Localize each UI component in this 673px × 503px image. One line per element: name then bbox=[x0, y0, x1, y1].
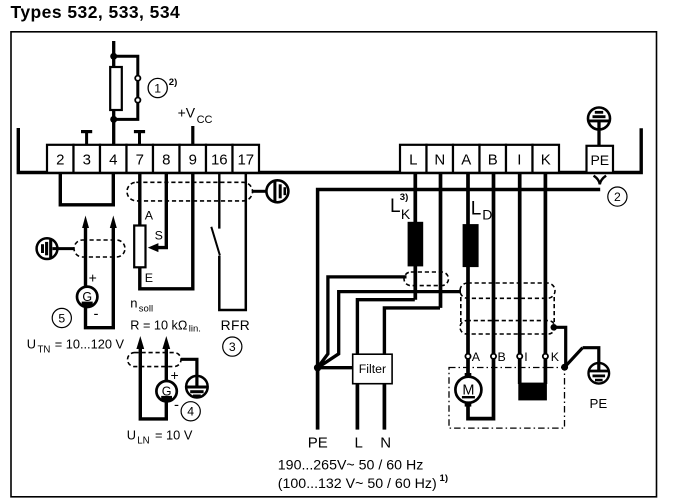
svg-text:9: 9 bbox=[189, 151, 197, 168]
svg-text:K: K bbox=[541, 151, 551, 168]
svg-text:+V: +V bbox=[178, 105, 196, 121]
svg-text:4: 4 bbox=[109, 151, 117, 168]
svg-text:soll: soll bbox=[139, 303, 153, 314]
svg-text:= 10 V: = 10 V bbox=[155, 428, 193, 443]
svg-text:3: 3 bbox=[83, 151, 91, 168]
svg-text:K: K bbox=[401, 206, 411, 222]
svg-text:S: S bbox=[155, 229, 163, 243]
svg-text:N: N bbox=[380, 435, 391, 452]
svg-text:L: L bbox=[409, 151, 417, 168]
svg-text:R = 10 kΩ: R = 10 kΩ bbox=[130, 318, 187, 332]
svg-text:1): 1) bbox=[440, 473, 449, 484]
svg-text:B: B bbox=[498, 350, 506, 364]
svg-text:RFR: RFR bbox=[221, 318, 251, 333]
svg-text:3): 3) bbox=[400, 192, 409, 203]
svg-text:17: 17 bbox=[237, 151, 254, 168]
svg-text:4: 4 bbox=[187, 405, 194, 419]
svg-text:U: U bbox=[127, 428, 136, 443]
svg-text:N: N bbox=[434, 151, 445, 168]
svg-text:Filter: Filter bbox=[359, 362, 386, 376]
svg-text:16: 16 bbox=[211, 151, 228, 168]
svg-text:7: 7 bbox=[136, 151, 144, 168]
svg-text:+: + bbox=[89, 270, 97, 286]
svg-text:PE: PE bbox=[308, 435, 328, 452]
svg-text:TN: TN bbox=[38, 344, 51, 355]
svg-text:2: 2 bbox=[614, 190, 621, 204]
svg-text:Types 532, 533, 534: Types 532, 533, 534 bbox=[11, 2, 181, 22]
svg-text:PE: PE bbox=[590, 152, 609, 168]
svg-text:A: A bbox=[472, 350, 481, 364]
svg-text:3: 3 bbox=[229, 340, 236, 354]
svg-text:-: - bbox=[174, 397, 179, 414]
svg-text:D: D bbox=[482, 207, 492, 223]
svg-text:A: A bbox=[145, 208, 154, 222]
svg-text:LN: LN bbox=[137, 436, 149, 447]
svg-text:K: K bbox=[551, 350, 560, 364]
svg-text:n: n bbox=[130, 295, 137, 310]
svg-text:E: E bbox=[145, 271, 153, 285]
svg-text:-: - bbox=[94, 306, 99, 323]
svg-text:I: I bbox=[524, 350, 527, 364]
svg-text:= 10...120 V: = 10...120 V bbox=[55, 336, 125, 351]
svg-text:I: I bbox=[517, 151, 521, 168]
svg-text:190...265V~ 50 / 60 Hz: 190...265V~ 50 / 60 Hz bbox=[278, 458, 424, 474]
svg-text:lin.: lin. bbox=[189, 324, 201, 335]
svg-text:8: 8 bbox=[162, 151, 170, 168]
svg-text:A: A bbox=[461, 151, 471, 168]
svg-text:5: 5 bbox=[58, 311, 65, 325]
svg-text:(100...132 V~ 50 / 60 Hz): (100...132 V~ 50 / 60 Hz) bbox=[278, 476, 437, 492]
svg-text:1: 1 bbox=[154, 81, 161, 95]
svg-text:2: 2 bbox=[56, 151, 64, 168]
svg-text:2): 2) bbox=[169, 77, 178, 88]
svg-text:PE: PE bbox=[590, 396, 608, 411]
svg-text:B: B bbox=[488, 151, 498, 168]
svg-text:L: L bbox=[471, 199, 482, 220]
svg-text:CC: CC bbox=[197, 114, 213, 126]
svg-text:+: + bbox=[171, 367, 179, 383]
svg-text:L: L bbox=[355, 435, 363, 452]
svg-text:U: U bbox=[27, 336, 36, 351]
